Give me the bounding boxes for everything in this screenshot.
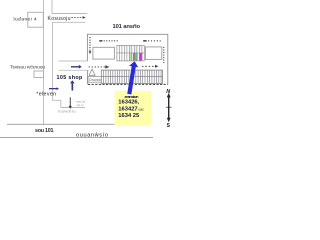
node big blue route arrow [127, 61, 138, 94]
svg-text:ananstavn: ananstavn [125, 95, 139, 99]
svg-text:163426,: 163426, [118, 100, 139, 106]
wire post-office soi south edge [61, 107, 85, 109]
wire vertical road Soi101 west edge [43, 0, 45, 124]
node shop row1 left building [93, 47, 115, 59]
svg-text:101 ansŕio: 101 ansŕio [113, 24, 141, 30]
wire top-right road south edge [53, 21, 86, 23]
svg-text:sou 101: sou 101 [35, 128, 54, 134]
wire Lat Phrao road south edge [0, 137, 153, 139]
wire soi to block north edge [59, 60, 88, 62]
node landmark box top-left [28, 12, 44, 27]
wire top lane dotted right group [143, 40, 161, 42]
node shop row1 right building [145, 47, 161, 60]
node market label box [88, 77, 102, 83]
wire block bottom dashed edge [88, 83, 168, 85]
node compass needle [166, 93, 172, 123]
wire vertical road east edge lower [52, 22, 54, 100]
node dashed arrow to Huai Khwang [71, 16, 85, 19]
svg-text:Ḱosusoju: Ḱosusoju [48, 15, 71, 22]
node blue arrow into soi [71, 65, 82, 69]
svg-text:1634 25: 1634 25 [118, 113, 140, 119]
svg-text:105 shop: 105 shop [57, 75, 84, 81]
node market triangle symbol [89, 69, 95, 75]
wire middle lane dashed arrow right [142, 65, 159, 68]
node yellow address box [115, 91, 151, 125]
wire vertical road east edge upper [51, 0, 53, 14]
node shop strip block with highlighted units [117, 45, 144, 61]
node blue arrow up to 105 shop [70, 80, 75, 90]
svg-text:voi iv: voi iv [77, 103, 84, 107]
wire soi to block south edge [59, 69, 90, 71]
wire notch jog east [53, 100, 61, 107]
node shop row2 hatched strip [101, 70, 162, 83]
svg-text:Tsvisuu ivťsnuou: Tsvisuu ivťsnuou [10, 65, 45, 71]
node school small box [34, 71, 44, 78]
wire top lane dotted left group [99, 40, 118, 42]
svg-text:luďanei 4: luďanei 4 [14, 16, 37, 22]
wire Lat Phrao road north edge [7, 123, 115, 125]
svg-text:Onunw: Onunw [89, 78, 101, 82]
svg-text:N: N [166, 89, 170, 95]
node black arrow down to post office [69, 97, 72, 109]
wire top-right road north edge [52, 13, 88, 15]
wire dotted vertical right inner [163, 47, 164, 63]
svg-text:ouuanŵsío: ouuanŵsío [76, 133, 108, 139]
svg-text:luswdriu: luswdriu [58, 110, 76, 114]
wire middle lane dashed arrow left [89, 65, 110, 68]
wire dotted vertical entry left with down arrow [89, 37, 92, 54]
svg-text:*eleven: *eleven [36, 91, 56, 97]
node shopping block outline [87, 34, 167, 84]
node blue arrow near eleven [49, 87, 59, 90]
